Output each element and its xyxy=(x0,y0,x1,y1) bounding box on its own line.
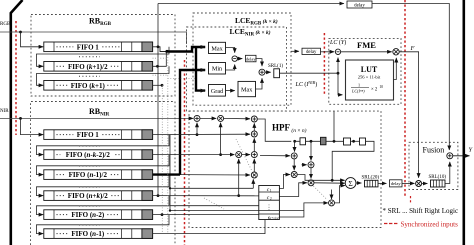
wire: B1 left stub xyxy=(260,155,290,157)
wire: staircase from r3 down to Sigma input xyxy=(332,141,374,180)
svg-text:Max: Max xyxy=(211,45,223,52)
FIFO register row: NIR row1 xyxy=(44,130,153,140)
node: junction reg chain b3 xyxy=(333,140,336,143)
svg-text:delay: delay xyxy=(354,4,365,9)
op: multiplier XB1 xyxy=(291,172,297,178)
wire: Min to minus xyxy=(226,65,235,71)
wire: vertical bus x=162 row3RGB down (dotted trace) xyxy=(161,85,163,233)
node: junction on NIR input xyxy=(19,117,22,120)
wire: chain r2 to r3 xyxy=(351,140,360,142)
wire: wrap NIR row3 to row4 xyxy=(37,175,170,196)
svg-text:FIFO (k+1)/2: FIFO (k+1)/2 xyxy=(68,63,108,71)
FIFO register row: NIR row4 xyxy=(44,191,153,201)
wire: Fusion output Y xyxy=(453,155,470,157)
block LUT xyxy=(346,60,394,100)
wire: M1 to A1 xyxy=(224,117,250,119)
wire: NIR row3 thick tap xyxy=(153,173,180,175)
wire: wrap NIR row5 to row6 xyxy=(37,215,170,234)
legend: synchronized inputs sample line xyxy=(384,223,398,225)
op: multiplier X0 xyxy=(236,152,242,158)
sync line 3 (red dashed) xyxy=(323,33,325,95)
wire: XB3 output up to Sigma xyxy=(335,186,346,203)
block Min (LCE) xyxy=(209,63,226,75)
dotted window: vertical trace below gray cells xyxy=(167,52,169,233)
ellipsis: omitted rows NIR xyxy=(79,224,100,226)
wire: X0 to A3 xyxy=(242,154,250,156)
FIFO register row: NIR row6 xyxy=(44,229,153,239)
block hatched register (HPF chain) xyxy=(321,137,327,145)
op: adder A3 xyxy=(251,152,257,158)
svg-text:1: 1 xyxy=(270,189,272,193)
sync line 1 (red dashed) xyxy=(15,21,17,135)
block Max2 (LCE grad max) xyxy=(238,81,256,96)
wire: LC(I NIR) line to LUT junction xyxy=(280,72,339,74)
wire: Grad to Max2 xyxy=(226,90,235,92)
svg-text:FIFO (n+k)/2: FIFO (n+k)/2 xyxy=(68,192,108,200)
svg-text:SRL(10): SRL(10) xyxy=(429,175,447,180)
svg-text:delay: delay xyxy=(306,50,317,55)
wire: c2 output riser to XB2 xyxy=(279,183,307,197)
node: junction reg chain b1 xyxy=(293,140,296,143)
wire: thick vertical V1 to Grad xyxy=(196,47,205,91)
block delay (LCE) xyxy=(246,55,257,62)
wire: vertical bus x=170 xyxy=(169,135,171,211)
block delay (top Y path) xyxy=(347,1,372,8)
wire: NIR row5 tap to stack xyxy=(153,213,259,215)
wire: LCE_RGB output into delay xyxy=(291,50,299,52)
wire: B1 down into XB1 xyxy=(293,159,295,170)
FIFO register row: RGB row3 xyxy=(44,81,153,91)
sync line 4 (red dashed) xyxy=(404,0,406,196)
svg-text:Fusion: Fusion xyxy=(423,146,445,155)
block register r3 (HPF chain) xyxy=(360,138,366,145)
wire: NIR row4 tap to stack xyxy=(153,195,259,197)
svg-text:FIFO (n-1): FIFO (n-1) xyxy=(71,230,105,238)
wire: FME minus to multiplier xyxy=(341,51,392,53)
svg-text:Grad: Grad xyxy=(211,88,224,95)
FIFO register row: NIR row5 xyxy=(44,210,153,220)
block delay (HPF output) xyxy=(390,180,403,187)
ellipsis: omitted rows NIR xyxy=(79,205,100,207)
wire: LUT output up into FME multiplier xyxy=(394,58,397,80)
svg-text:2: 2 xyxy=(270,197,272,201)
block Max (LCE) xyxy=(209,42,226,53)
ellipsis: omitted rows NIR xyxy=(79,186,100,188)
wire: RGB input drop into FIFO 1 xyxy=(21,32,44,47)
wire: thick bus to Max xyxy=(167,47,205,52)
svg-text:10: 10 xyxy=(380,85,384,89)
wire: y210.6 line to XB3 riser xyxy=(170,210,304,212)
svg-text:1: 1 xyxy=(358,83,360,88)
wire: XB2 output to Sigma xyxy=(314,182,345,184)
node: junction y210.6 xyxy=(169,209,171,211)
wire: I_NIR input line y=118.4 xyxy=(0,117,193,119)
wire: NIR input drop into FIFO 1 xyxy=(21,118,44,134)
wire: thick vertical V2 to Min xyxy=(180,70,205,175)
wire: delay to Fusion multiplier xyxy=(402,182,415,184)
wire: wrap RGB row2 to row3 xyxy=(37,66,170,85)
FIFO register row: NIR row3 xyxy=(44,170,153,180)
op: Sigma accumulator xyxy=(345,178,356,189)
svg-text:delay: delay xyxy=(391,181,402,186)
sync line 2 (red dashed) xyxy=(184,60,186,245)
op: multiplier XB3 xyxy=(329,200,335,206)
block SRL(1) xyxy=(274,69,280,78)
svg-text:(n+1)/2: (n+1)/2 xyxy=(268,216,279,220)
node: junction row1 tap riser xyxy=(196,133,199,136)
wire: delay to plus xyxy=(256,59,262,67)
ellipsis: omitted rows RGB xyxy=(79,56,100,58)
node: junction row3 tap xyxy=(161,84,164,87)
block register r2 (HPF chain) xyxy=(344,138,351,145)
wire: A2 up into A1 xyxy=(253,123,255,130)
wire: A3 up into A2 xyxy=(253,138,255,151)
wire: XB1 output to Sigma xyxy=(297,175,345,181)
svg-text:FME: FME xyxy=(357,40,376,50)
wire: wrap NIR row4 to row5 xyxy=(37,196,170,215)
block register r1 (HPF chain) xyxy=(300,138,306,145)
box Fusion (dashed) xyxy=(409,142,458,189)
svg-text:delay: delay xyxy=(246,56,257,61)
svg-text:FIFO (n-k-2)/2: FIFO (n-k-2)/2 xyxy=(66,151,111,159)
node: junction on RGB input xyxy=(19,31,22,34)
wire: NIR row3 tap thin extension to X1 xyxy=(180,174,250,176)
op: multiplier XB2 xyxy=(308,180,314,186)
wire: NIR row6 tap up into stack bottom xyxy=(153,220,265,234)
block coefficient stack c1..c(n+1)/2 xyxy=(259,186,280,221)
op: plus circle LCE xyxy=(259,69,265,75)
wire: c1 output riser to XB1 xyxy=(279,175,290,189)
wire: riser into M1 from NIR row2 tap xyxy=(220,123,222,155)
wire: Fusion multiplier to SRL10 xyxy=(422,183,428,185)
wire: A1 output over to register chain xyxy=(257,119,291,141)
wire: wrap NIR row1 to row2 xyxy=(37,135,170,155)
ellipsis: omitted rows RGB xyxy=(79,75,100,77)
dotted window: horizontal y58.2 xyxy=(153,57,168,59)
svg-text:FIFO (n-1)/2: FIFO (n-1)/2 xyxy=(69,171,108,179)
svg-text:NIR: NIR xyxy=(0,109,9,114)
wire: RGB row2 tap xyxy=(153,52,167,67)
node: junction reg chain b4 xyxy=(352,140,355,143)
node: junction staircase joins XB1 line xyxy=(331,179,334,182)
wire: chain r1 to hatch xyxy=(295,140,321,142)
FIFO register row: NIR row2 xyxy=(44,150,153,160)
svg-text:LUT: LUT xyxy=(361,65,378,74)
svg-text:SRL(1): SRL(1) xyxy=(268,64,283,69)
node: junction x158 row1 xyxy=(157,45,160,48)
svg-text:FIFO (k+1): FIFO (k+1) xyxy=(71,82,106,90)
node: junction row2 tap xyxy=(156,65,159,68)
svg-text:SRL(20): SRL(20) xyxy=(362,175,380,180)
box LCE_RGB (dashed) xyxy=(193,13,291,105)
wire: wrap NIR row2 to row3 xyxy=(37,155,170,175)
op: adder B1 xyxy=(291,153,297,159)
box RB_RGB (dashed) xyxy=(31,15,175,97)
op: multiplier X1 xyxy=(251,172,257,178)
wire: SRL20 to delay xyxy=(378,182,386,184)
wire: stub up from junction b3 xyxy=(333,112,335,142)
ellipsis diagonal: HPF left column xyxy=(236,139,252,171)
wire: thick right border bus xyxy=(462,0,465,245)
wire: B2 down into XB2 xyxy=(310,168,312,179)
sync line 4 tail (red dashed) xyxy=(410,196,412,203)
op: adder P1 (NIR line) xyxy=(194,115,200,121)
ellipsis diagonal: tap area xyxy=(204,198,224,209)
box FME (dashed) xyxy=(329,38,401,104)
node: junction x162 NIR row5 xyxy=(161,213,164,216)
op: minus circle LCE xyxy=(232,56,237,61)
ellipsis: omitted rows NIR xyxy=(79,145,100,147)
box HPF (dashed) xyxy=(189,111,381,227)
op: Fusion multiplier xyxy=(416,181,422,187)
block SRL(20) shift register xyxy=(362,175,380,187)
svg-text:Min: Min xyxy=(212,66,222,73)
svg-text:* SRL ... Shift Right Logic: * SRL ... Shift Right Logic xyxy=(383,207,459,215)
wire: NIR row1 tap to A2 xyxy=(153,133,250,135)
wire: X1 up into A3 xyxy=(253,159,255,172)
svg-text:FIFO 1: FIFO 1 xyxy=(77,131,99,139)
wire: B1 drop from junction b1 xyxy=(294,141,296,151)
wire: B2 drop from junction b2 xyxy=(310,141,312,160)
svg-text:LC(I ⁿ ⁿ): LC(I ⁿ ⁿ) xyxy=(351,89,365,94)
block SRL(10) shift register xyxy=(429,175,447,187)
wire: NIR row2 tap to X0 xyxy=(153,154,235,156)
wire: P1 to M1 xyxy=(200,117,216,119)
block delay (RGB LC path) xyxy=(302,48,321,54)
wire: Max2 to plus xyxy=(256,78,263,89)
node: junction x158 NIR row4 xyxy=(157,194,160,197)
wire: RGB row3 tap xyxy=(153,84,162,86)
svg-text:Σ: Σ xyxy=(348,179,352,188)
block Grad (LCE) xyxy=(209,85,226,97)
op: adder A2 xyxy=(251,131,257,137)
wire: RGB row1 tap to junction xyxy=(153,47,167,52)
node: junction X0 riser bottom xyxy=(237,194,240,197)
wire: left line into stack y205.7 xyxy=(170,205,259,207)
wire: B2 left stub xyxy=(302,164,307,166)
node: junction row2 tap riser xyxy=(219,153,222,156)
svg-text:256 × 11-bit: 256 × 11-bit xyxy=(358,75,381,80)
node: junction y188.3 xyxy=(169,187,171,189)
wire: riser into P1 from NIR row1 tap xyxy=(196,123,198,135)
wire: LC up into FME minus xyxy=(337,58,339,74)
op: Fusion adder xyxy=(447,153,453,159)
wire: delayed Y to Fusion adder xyxy=(372,4,449,151)
svg-text:FIFO 1: FIFO 1 xyxy=(77,43,99,51)
op: multiplier FME xyxy=(393,49,399,55)
op: adder A1 column top xyxy=(251,116,257,122)
wire: delay to FME minus xyxy=(321,51,335,53)
node: junction reg chain b2 xyxy=(310,140,313,143)
svg-text:FIFO (n-2): FIFO (n-2) xyxy=(71,211,105,219)
wire: chain hatch to r2 xyxy=(326,140,344,142)
wire: thick input bus I_RGB left edge xyxy=(11,0,23,245)
FIFO register row: RGB row1 xyxy=(44,42,153,52)
wire: F line from FME multiplier down to Fusion multiplier xyxy=(399,52,418,178)
op: multiplier M1 (NIR line) xyxy=(218,115,224,121)
svg-text:LC (Y): LC (Y) xyxy=(329,39,346,46)
label LUT formula xyxy=(351,83,383,94)
wire: plus to SRL1 xyxy=(265,71,271,73)
node: junction LC to LUT and FME minus xyxy=(337,72,340,75)
FIFO register row: RGB row2 xyxy=(44,62,153,72)
wire: X1 coefficient riser xyxy=(252,179,254,188)
wire: top luma wire to delay xyxy=(158,3,344,5)
node: junction thick bus start xyxy=(165,50,168,53)
op: adder B2 xyxy=(308,162,314,168)
wire: left line into stack y188.3 and X1 coefficient xyxy=(170,187,253,189)
ellipsis: omitted rows NIR xyxy=(79,165,100,167)
dotted window: horizontal y75.2 xyxy=(153,74,168,76)
svg-text:RGB: RGB xyxy=(0,22,11,27)
dotted window: corner out to LCE xyxy=(168,77,196,79)
wire: c last output to XB3 xyxy=(279,203,328,217)
ellipsis diagonal: multiplier tree xyxy=(314,186,328,200)
wire: SRL10 up into Fusion adder xyxy=(445,162,450,184)
wire: Sigma to SRL20 xyxy=(356,182,361,184)
svg-text:× 2: × 2 xyxy=(371,88,378,93)
wire: minus to delay xyxy=(237,58,242,60)
op: minus circle FME (LC(Y)) xyxy=(335,49,340,54)
wire: X0 coefficient riser xyxy=(238,159,240,196)
wire: LC down into LUT xyxy=(338,73,342,95)
wire: vertical bus x=158 from top wire to NIR row4 xyxy=(157,4,159,196)
wire: wrap RGB row1 to row2 xyxy=(37,47,170,67)
wire: XB3 top stub input xyxy=(331,190,333,200)
box RB_NIR (dashed) xyxy=(31,102,176,245)
svg-text:Synchronized inputs: Synchronized inputs xyxy=(401,220,459,228)
wire: I_RGB input line y=32 xyxy=(0,32,187,44)
box LCE_NIR (dashed) xyxy=(187,27,287,111)
svg-text:Max: Max xyxy=(241,86,253,93)
wire: Max to minus xyxy=(226,48,235,53)
